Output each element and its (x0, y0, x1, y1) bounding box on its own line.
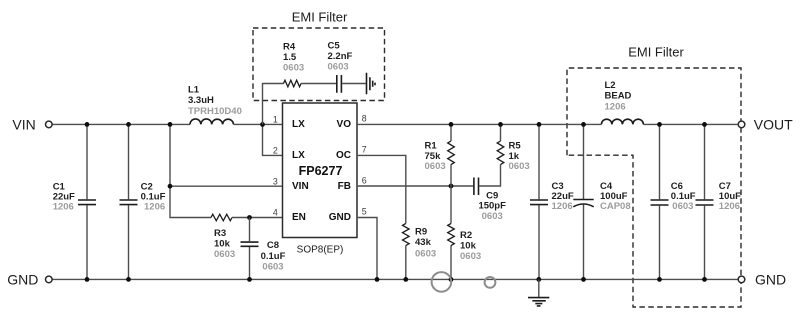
svg-text:VOUT: VOUT (754, 116, 793, 132)
wire OC net (357, 155, 406, 223)
svg-text:GND: GND (7, 271, 38, 287)
junction FB/R1/R2 (449, 184, 454, 189)
resistor R9 (403, 224, 437, 260)
wire GND rail (52, 278, 738, 280)
svg-text:0.1uF: 0.1uF (261, 251, 286, 262)
pin 5 label GND (329, 207, 367, 224)
svg-text:LX: LX (292, 119, 305, 130)
capacitor C7 (696, 181, 742, 212)
svg-text:1.5: 1.5 (283, 52, 297, 63)
svg-text:FB: FB (338, 181, 351, 192)
junction C8/GND (247, 277, 252, 282)
wire R3 to EN (232, 217, 283, 219)
wire LX tie pin1-pin2 (263, 124, 283, 155)
wire C7 branch (704, 124, 706, 279)
junction LX node (260, 122, 265, 127)
svg-text:R4: R4 (283, 42, 296, 53)
svg-text:1206: 1206 (144, 201, 165, 212)
junction C4/GND rail (581, 277, 586, 282)
svg-text:TPRH10D40: TPRH10D40 (188, 106, 242, 117)
junction C2/VIN (126, 122, 131, 127)
IC U1 FP6277 (283, 103, 358, 256)
capacitor C4 (polarized) (573, 181, 630, 212)
svg-text:CAP08: CAP08 (600, 201, 631, 212)
junction C1/GND (85, 277, 90, 282)
wire FB net (357, 165, 501, 187)
svg-text:VO: VO (337, 119, 352, 130)
svg-text:C8: C8 (267, 240, 279, 251)
junction pin5/GND rail (375, 277, 380, 282)
junction pin3 tee (168, 184, 173, 189)
pin 8 label VO (337, 114, 367, 130)
svg-text:10k: 10k (214, 238, 231, 249)
resistor R4 (283, 42, 304, 87)
junction C6/GND rail (657, 277, 662, 282)
chassis ground (EMI filter 1) (367, 73, 376, 94)
svg-text:GND: GND (329, 212, 351, 223)
pin 6 label FB (338, 175, 367, 191)
wire R9 to GND (405, 246, 407, 280)
junction R1/VO rail (449, 122, 454, 127)
junction R2/GND (449, 277, 454, 282)
resistor R2 (448, 186, 481, 279)
junction C3/GND rail (536, 277, 541, 282)
pin 7 label OC (336, 145, 367, 161)
capacitor C3 (530, 181, 574, 212)
svg-text:3: 3 (273, 176, 278, 186)
wire C8 branch (249, 218, 251, 280)
svg-text:5: 5 (362, 207, 367, 217)
svg-text:0603: 0603 (283, 63, 304, 74)
resistor R1 (425, 124, 455, 186)
svg-text:0603: 0603 (672, 201, 693, 212)
junction VIN rail x170 (168, 122, 173, 127)
wire VO rail (357, 123, 738, 125)
svg-text:3.3uH: 3.3uH (188, 95, 214, 106)
wire GND pin5 to rail (357, 218, 377, 280)
svg-text:EN: EN (292, 212, 306, 223)
svg-text:OC: OC (336, 150, 351, 161)
svg-text:1206: 1206 (719, 201, 740, 212)
wire C4 branch (583, 124, 585, 279)
earth ground below C3 (528, 279, 549, 306)
junction EN/R3/C8 (247, 215, 252, 220)
resistor R3 (211, 214, 235, 260)
pin 4 label EN (273, 208, 306, 223)
svg-text:EMI Filter: EMI Filter (292, 10, 348, 25)
svg-text:SOP8(EP): SOP8(EP) (297, 245, 344, 256)
capacitor C8 (241, 240, 286, 273)
svg-text:1206: 1206 (552, 201, 573, 212)
svg-text:GND: GND (755, 271, 786, 287)
svg-text:VIN: VIN (12, 116, 35, 132)
svg-text:0603: 0603 (460, 251, 481, 262)
svg-text:LX: LX (292, 150, 305, 161)
svg-text:VIN: VIN (292, 181, 309, 192)
svg-text:10k: 10k (460, 240, 477, 251)
capacitor C1 (53, 182, 96, 213)
pin 2 label LX (273, 146, 305, 161)
wire C2 branch (128, 124, 130, 279)
inductor L1 (188, 85, 242, 125)
pin 1 label LX (273, 115, 305, 130)
svg-text:C5: C5 (328, 41, 341, 52)
svg-text:43k: 43k (415, 237, 432, 248)
svg-text:7: 7 (362, 145, 367, 155)
node VOUT terminal (738, 116, 793, 132)
capacitor C2 (120, 182, 166, 213)
capacitor C9 (474, 178, 506, 222)
inductor L2 (601, 80, 643, 124)
via marker small (gray circle) (485, 277, 496, 288)
svg-text:4: 4 (273, 208, 278, 218)
svg-text:FP6277: FP6277 (299, 164, 343, 178)
capacitor C5 (328, 41, 353, 93)
wire VIN-pin3 branch (170, 124, 283, 217)
via marker large (gray circle) (432, 272, 452, 292)
wire R4 to C5 (301, 83, 336, 85)
svg-text:0603: 0603 (214, 249, 235, 260)
junction C4/VO rail (581, 122, 586, 127)
resistor R5 (497, 124, 529, 172)
EMI filter box 2 (dashed) (567, 45, 741, 308)
svg-text:L2: L2 (605, 80, 616, 91)
svg-text:8: 8 (362, 114, 367, 124)
junction C3/VO rail (537, 122, 542, 127)
svg-text:0603: 0603 (509, 161, 530, 172)
svg-text:6: 6 (362, 175, 367, 185)
node GND terminal left (7, 271, 52, 287)
svg-text:1: 1 (273, 115, 278, 125)
svg-text:0603: 0603 (482, 211, 503, 222)
wire C1 branch (86, 124, 88, 279)
wire C3 branch (538, 124, 540, 279)
node GND terminal right (738, 271, 786, 287)
svg-text:0603: 0603 (415, 249, 436, 260)
junction C2/GND (126, 277, 131, 282)
junction R5/VO rail (498, 122, 503, 127)
svg-text:1206: 1206 (605, 102, 626, 113)
svg-text:0603: 0603 (262, 262, 283, 273)
junction C7/GND rail (702, 277, 707, 282)
EMI filter box 1 (dashed) (253, 10, 385, 101)
junction R9/GND (403, 277, 408, 282)
svg-text:BEAD: BEAD (605, 91, 632, 102)
svg-text:0603: 0603 (328, 62, 349, 73)
capacitor C6 (651, 181, 696, 212)
svg-text:0603: 0603 (425, 161, 446, 172)
svg-text:1206: 1206 (53, 201, 74, 212)
node VIN terminal (12, 116, 52, 132)
svg-text:EMI Filter: EMI Filter (628, 45, 684, 60)
pin 3 label VIN (273, 176, 309, 191)
svg-text:2.2nF: 2.2nF (328, 51, 353, 62)
junction C6/VO rail (657, 122, 662, 127)
wire VIN rail (52, 123, 282, 125)
junction C1/VIN (85, 122, 90, 127)
wire C5 to chassis ground (342, 83, 366, 85)
wire LX to EMI filter 1 (263, 84, 284, 125)
junction C7/VO rail (702, 122, 707, 127)
svg-text:2: 2 (273, 146, 278, 156)
wire C6 branch (659, 124, 661, 279)
